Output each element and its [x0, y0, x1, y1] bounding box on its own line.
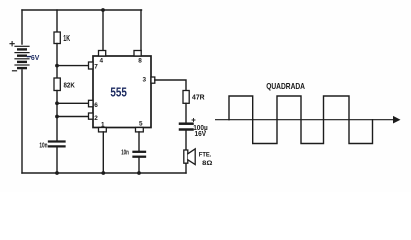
wire top rail [22, 9, 142, 11]
wire pin 1 to bottom rail [102, 132, 104, 173]
pin 6 [89, 100, 99, 109]
svg-text:5: 5 [139, 120, 143, 127]
svg-text:10n: 10n [121, 150, 129, 157]
wire to pin 7 [57, 65, 89, 67]
waveform axis arrowhead [393, 116, 401, 124]
wire R3 to C3 [185, 103, 187, 122]
svg-text:82K: 82K [64, 81, 76, 90]
pin 3 [143, 77, 155, 84]
wire pin 3 to output column [155, 80, 186, 91]
node pin2 junction [55, 115, 59, 119]
svg-text:6V: 6V [31, 53, 39, 62]
wire R1 to R2 [56, 44, 58, 79]
svg-text:QUADRADA: QUADRADA [266, 82, 305, 91]
battery minus sign [13, 70, 17, 72]
capacitor C1 10n [49, 142, 65, 147]
wire pin 4 drop [102, 10, 104, 51]
wire pin 8 drop [140, 10, 142, 51]
svg-text:4: 4 [100, 58, 104, 65]
C3 value label 100u 16V [193, 123, 208, 138]
svg-text:47R: 47R [192, 92, 205, 101]
node pin7 junction [55, 64, 59, 68]
node pin6 junction [55, 101, 59, 105]
battery B1 6V [15, 46, 29, 68]
capacitor C3 100u electrolytic [180, 124, 193, 130]
svg-text:1K: 1K [63, 33, 70, 43]
svg-text:10n: 10n [39, 143, 47, 150]
capacitor C2 10n [134, 152, 146, 157]
svg-text:6: 6 [94, 102, 98, 109]
pin 7 [89, 62, 99, 70]
node pin1 bottom junction [101, 171, 105, 175]
battery plus sign [10, 42, 14, 46]
resistor R3 47R [183, 91, 189, 104]
pin 1 [99, 121, 107, 132]
waveform axis [216, 119, 393, 121]
pin 2 [89, 113, 99, 122]
resistor R2 82K [54, 78, 60, 91]
svg-text:16V: 16V [195, 129, 207, 138]
C3 polarity plus [192, 119, 195, 122]
battery value label 6V [28, 53, 40, 62]
wire C1 to bottom rail [56, 148, 58, 174]
resistor R1 1K [54, 32, 60, 44]
svg-text:8Ω: 8Ω [202, 160, 213, 167]
pin 4 [99, 51, 106, 65]
wire bottom rail [22, 172, 186, 174]
svg-text:2: 2 [94, 115, 98, 122]
node C1 bottom junction [55, 171, 59, 175]
op-amp U1 555 body [93, 56, 151, 128]
svg-text:3: 3 [143, 77, 147, 84]
node pin4 top junction [101, 8, 105, 12]
wire resistor column top [56, 10, 58, 32]
wire left rail bottom segment [21, 70, 23, 173]
speaker SPK1 [184, 149, 195, 165]
svg-text:8: 8 [138, 57, 142, 64]
svg-text:7: 7 [94, 63, 98, 70]
svg-text:555: 555 [110, 84, 126, 99]
pin 8 [134, 51, 142, 65]
wire left rail top segment [21, 10, 23, 44]
wire C3 to speaker [185, 131, 187, 150]
svg-text:1: 1 [101, 121, 105, 128]
node C2 bottom junction [137, 171, 141, 175]
speaker label FTE 8ohm [199, 152, 213, 167]
wire pin 5 to C2 [138, 132, 140, 151]
wire R2 down to C1 [56, 91, 58, 141]
square wave trace [229, 96, 373, 144]
wire C2 to bottom rail [138, 158, 140, 173]
wire to pin 6 [57, 102, 89, 104]
pin 5 [136, 120, 144, 132]
svg-text:FTE.: FTE. [199, 152, 212, 159]
wire speaker to bottom rail [185, 163, 187, 173]
wire to pin 2 [57, 116, 89, 118]
